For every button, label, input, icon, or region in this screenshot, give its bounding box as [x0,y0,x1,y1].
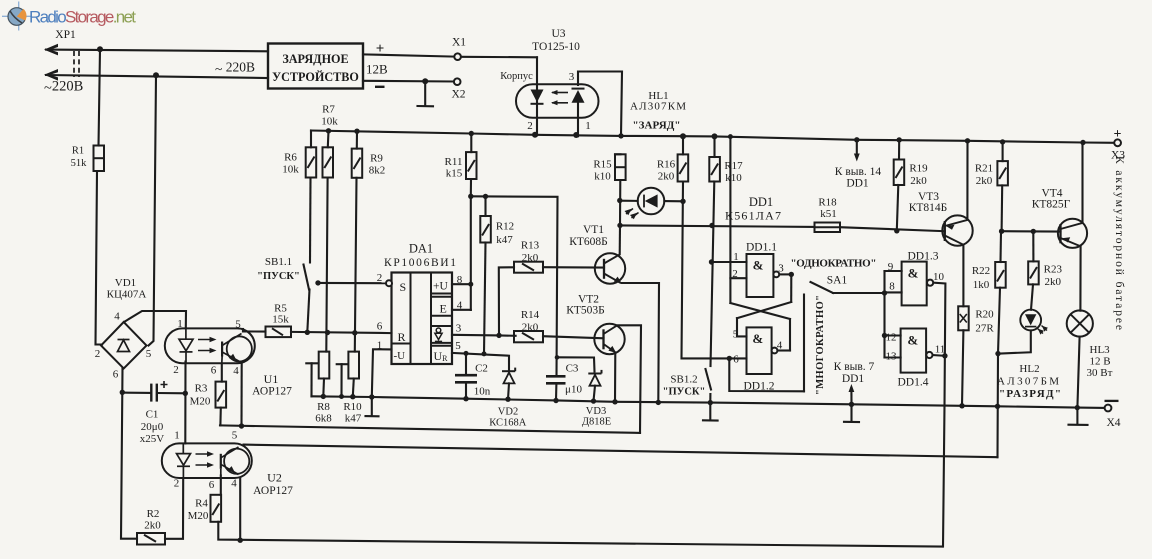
svg-text:6k8: 6k8 [315,413,332,425]
svg-text:КТ825Г: КТ825Г [1032,199,1071,211]
svg-text:2: 2 [95,348,101,360]
svg-text:VD3: VD3 [586,406,606,417]
svg-text:3: 3 [456,323,462,335]
svg-text:АЛ307КМ: АЛ307КМ [630,101,686,113]
svg-text:К аккумуляторной батарее: К аккумуляторной батарее [1113,156,1125,330]
svg-text:R3: R3 [195,383,208,395]
svg-text:+: + [1114,127,1122,142]
svg-text:10k: 10k [321,116,338,128]
svg-text:5: 5 [235,319,241,331]
svg-text:6: 6 [733,354,739,366]
svg-text:+U: +U [433,281,448,293]
svg-text:SB1.2: SB1.2 [670,374,697,386]
svg-text:3: 3 [569,71,575,83]
svg-text:DD1.3: DD1.3 [908,251,939,263]
svg-text:X1: X1 [452,37,466,49]
svg-text:R2: R2 [147,508,160,520]
svg-text:"ПУСК": "ПУСК" [663,387,706,398]
svg-text:1: 1 [177,318,183,330]
svg-text:2k0: 2k0 [976,175,993,187]
svg-text:1: 1 [377,340,383,352]
svg-text:DD1: DD1 [749,195,773,209]
svg-text:C3: C3 [566,363,579,375]
svg-text:8: 8 [457,274,463,286]
svg-text:10n: 10n [474,386,491,398]
svg-text:R22: R22 [972,265,990,277]
svg-text:RadioStorage.net: RadioStorage.net [29,8,136,27]
svg-text:2k0: 2k0 [522,252,539,264]
svg-text:"МНОГОКРАТНО": "МНОГОКРАТНО" [815,295,826,395]
svg-text:R9: R9 [370,153,383,165]
svg-text:4: 4 [457,300,463,312]
svg-text:X2: X2 [451,89,465,101]
svg-text:1: 1 [174,430,180,442]
svg-text:R4: R4 [195,498,208,510]
svg-text:R8: R8 [317,401,330,413]
svg-text:2: 2 [174,478,180,490]
svg-text:6: 6 [211,365,217,377]
svg-text:АОР127: АОР127 [253,485,293,497]
svg-text:М20: М20 [190,396,211,408]
svg-text:6: 6 [377,321,383,333]
svg-text:+: + [376,41,385,57]
svg-text:R23: R23 [1044,264,1063,276]
svg-text:М20: М20 [188,510,209,522]
svg-text:КР1006ВИ1: КР1006ВИ1 [384,257,456,269]
svg-text:R20: R20 [975,309,994,321]
svg-text:U1: U1 [264,372,279,386]
svg-text:2k0: 2k0 [144,520,161,532]
svg-text:Д818Е: Д818Е [582,417,611,428]
svg-text:U2: U2 [267,471,282,485]
svg-text:S: S [400,280,407,294]
svg-text:DD1: DD1 [842,373,865,385]
svg-text:Корпус: Корпус [500,71,533,82]
svg-text:C2: C2 [475,363,488,375]
svg-text:1k0: 1k0 [973,279,990,291]
svg-text:15k: 15k [272,314,289,326]
svg-text:30 Вт: 30 Вт [1087,367,1113,379]
svg-text:2k0: 2k0 [1045,276,1062,288]
svg-text:&: & [907,333,918,348]
svg-text:E: E [440,302,447,316]
svg-text:51k: 51k [71,158,88,169]
svg-text:2k0: 2k0 [658,171,675,183]
svg-text:R1: R1 [72,146,84,157]
svg-text:R12: R12 [496,221,514,233]
svg-text:R7: R7 [322,104,335,116]
svg-text:20μ0: 20μ0 [141,421,164,433]
svg-text:"ЗАРЯД": "ЗАРЯД" [633,120,681,132]
svg-text:3: 3 [778,263,784,275]
svg-text:8: 8 [889,281,895,293]
svg-text:1: 1 [733,251,739,263]
svg-text:КТ503Б: КТ503Б [566,305,605,317]
svg-text:12В: 12В [366,62,388,77]
svg-text:4: 4 [231,478,237,490]
svg-text:VD1: VD1 [115,277,136,289]
svg-text:2: 2 [732,268,738,280]
svg-text:4: 4 [777,340,783,352]
svg-text:x25V: x25V [140,433,165,445]
svg-text:VD2: VD2 [498,407,518,418]
svg-text:27R: 27R [975,323,994,335]
svg-text:6: 6 [113,369,119,381]
svg-text:2: 2 [527,120,533,132]
svg-text:КТ608Б: КТ608Б [569,236,608,248]
svg-text:10k: 10k [282,164,299,176]
svg-text:2k0: 2k0 [910,175,927,187]
svg-text:АЛ307БМ: АЛ307БМ [997,376,1059,388]
svg-text:DD1.4: DD1.4 [898,377,929,389]
svg-text:ТО125-10: ТО125-10 [532,41,580,53]
svg-text:5: 5 [232,430,238,442]
svg-text:DD1.1: DD1.1 [746,242,777,254]
svg-text:&: & [752,331,763,346]
svg-text:КС168А: КС168А [489,418,526,429]
svg-text:К выв. 14: К выв. 14 [835,166,882,178]
svg-text:5: 5 [146,348,152,360]
svg-text:АОР127: АОР127 [252,386,292,398]
svg-text:"ОДНОКРАТНО": "ОДНОКРАТНО" [791,258,877,270]
svg-text:УСТРОЙСТВО: УСТРОЙСТВО [272,70,359,84]
svg-text:X4: X4 [1106,417,1120,429]
svg-text:12 В: 12 В [1090,356,1111,368]
svg-text:КТ814Б: КТ814Б [909,202,948,214]
svg-text:~ 220В: ~ 220В [215,60,255,77]
svg-text:8k2: 8k2 [369,165,386,177]
svg-text:R: R [398,330,406,344]
svg-text:&: & [753,258,764,273]
svg-text:10: 10 [933,271,945,283]
svg-text:12: 12 [886,332,897,344]
svg-text:R17: R17 [724,160,743,172]
svg-text:"ПУСК": "ПУСК" [257,271,300,282]
svg-text:XP1: XP1 [55,29,76,41]
svg-text:6: 6 [209,479,215,491]
svg-text:k10: k10 [594,171,611,183]
svg-text:~220В: ~220В [44,79,83,97]
svg-text:4: 4 [114,311,120,323]
svg-text:-U: -U [394,350,406,362]
svg-text:μ10: μ10 [565,384,582,396]
svg-text:k10: k10 [725,172,742,184]
svg-text:К выв. 7: К выв. 7 [834,361,875,373]
svg-text:k47: k47 [345,413,362,425]
svg-text:5: 5 [733,329,739,341]
svg-text:DD1.2: DD1.2 [744,381,775,393]
svg-text:R16: R16 [657,159,676,171]
svg-text:VT1: VT1 [583,224,604,236]
svg-text:R18: R18 [818,197,837,209]
svg-text:HL3: HL3 [1090,344,1111,356]
svg-text:k15: k15 [446,168,463,180]
svg-text:2: 2 [173,364,179,376]
svg-text:2: 2 [377,272,383,284]
svg-text:R14: R14 [521,309,540,321]
svg-text:SB1.1: SB1.1 [265,256,292,268]
svg-text:R10: R10 [343,401,362,413]
svg-text:R11: R11 [445,156,463,168]
svg-text:SA1: SA1 [827,275,848,287]
svg-text:&: & [908,266,919,281]
svg-text:DD1: DD1 [846,178,869,190]
svg-text:R13: R13 [521,240,540,252]
svg-text:4: 4 [233,365,239,377]
svg-text:U3: U3 [551,28,565,40]
svg-text:DA1: DA1 [409,242,433,256]
svg-text:13: 13 [886,351,898,363]
svg-text:k47: k47 [496,234,513,246]
svg-text:HL2: HL2 [1019,363,1039,375]
svg-text:"РАЗРЯД": "РАЗРЯД" [999,388,1061,400]
svg-text:11: 11 [935,344,946,356]
svg-text:k51: k51 [820,208,837,220]
svg-text:R19: R19 [909,163,928,175]
svg-text:2k0: 2k0 [522,322,539,334]
svg-text:К561ЛА7: К561ЛА7 [725,209,781,223]
svg-text:9: 9 [888,261,894,273]
svg-text:C1: C1 [146,409,159,421]
svg-text:ЗАРЯДНОЕ: ЗАРЯДНОЕ [282,52,348,66]
svg-text:КЦ407А: КЦ407А [107,289,147,301]
svg-text:R21: R21 [975,163,993,175]
svg-text:R6: R6 [284,152,297,164]
svg-text:1: 1 [585,120,591,132]
svg-text:5: 5 [455,340,461,352]
svg-text:R15: R15 [593,159,612,171]
